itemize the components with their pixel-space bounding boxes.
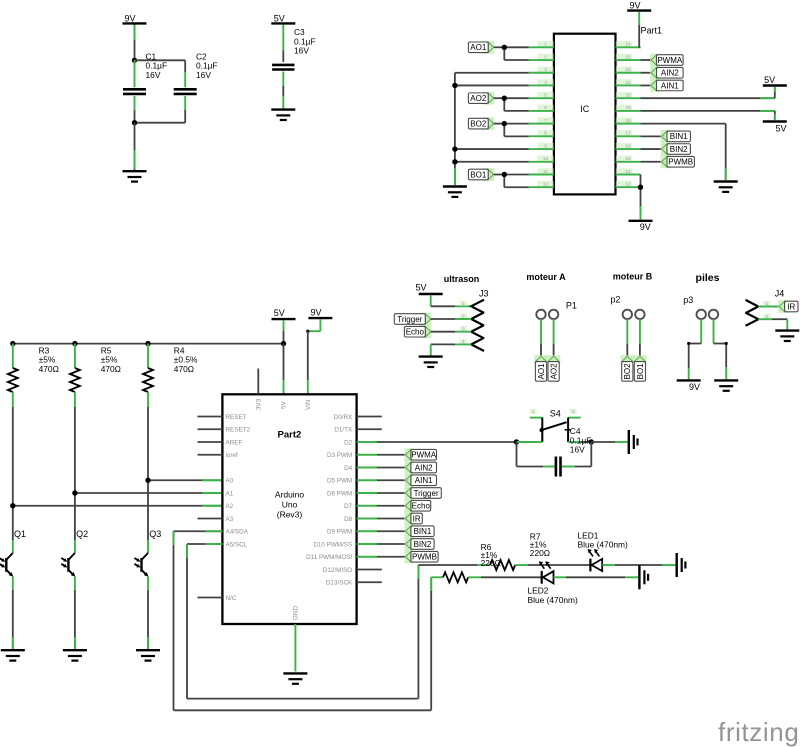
- connector p3 pins: [697, 310, 719, 319]
- svg-text:BIN2: BIN2: [670, 145, 688, 154]
- svg-text:BO1: BO1: [636, 363, 645, 380]
- svg-text:10: 10: [543, 156, 549, 161]
- svg-text:IC: IC: [580, 104, 590, 114]
- wire: [626, 319, 628, 356]
- wire: [639, 319, 641, 356]
- svg-text:9V: 9V: [311, 308, 322, 318]
- wire: [377, 530, 406, 532]
- svg-text:ioref: ioref: [226, 452, 238, 459]
- wire: [135, 59, 186, 61]
- svg-text:11: 11: [543, 169, 548, 174]
- wire: [377, 492, 406, 494]
- wire: [283, 344, 285, 395]
- svg-text:Part2: Part2: [278, 430, 302, 441]
- wire: [517, 441, 592, 443]
- svg-text:D3 PWM: D3 PWM: [327, 452, 352, 459]
- svg-text:IR: IR: [413, 514, 421, 523]
- net label AIN1: [650, 79, 683, 92]
- junction: [502, 121, 507, 126]
- svg-text:2: 2: [766, 314, 769, 319]
- ground: [714, 182, 738, 192]
- ground: [419, 357, 443, 367]
- net label Trigger: [405, 487, 442, 500]
- svg-text:PWMA: PWMA: [657, 56, 683, 65]
- wire: [641, 72, 652, 74]
- net label BIN2: [405, 538, 435, 551]
- net label PWMB: [661, 155, 695, 168]
- svg-text:BIN2: BIN2: [414, 540, 432, 549]
- net label Trigger: [394, 313, 431, 326]
- svg-text:1: 1: [462, 301, 465, 306]
- svg-text:Blue (470nm): Blue (470nm): [528, 595, 578, 605]
- ground: [123, 171, 147, 181]
- svg-text:5V: 5V: [274, 13, 285, 23]
- junction: [452, 83, 457, 88]
- connector p3 title: [683, 272, 719, 305]
- wire: [591, 441, 627, 443]
- svg-text:J4: J4: [775, 289, 785, 299]
- net label Echo: [404, 325, 431, 338]
- svg-text:19: 19: [625, 105, 631, 110]
- svg-text:A1: A1: [226, 490, 234, 497]
- wire: [641, 135, 662, 137]
- svg-text:piles: piles: [696, 272, 720, 284]
- junction: [132, 120, 137, 125]
- svg-text:AO1: AO1: [470, 43, 487, 52]
- wire: [758, 319, 787, 329]
- junction: [72, 341, 77, 346]
- junction: [589, 439, 594, 444]
- wire: [135, 110, 186, 123]
- svg-text:470Ω: 470Ω: [39, 364, 59, 374]
- svg-text:9: 9: [544, 143, 547, 148]
- svg-text:22: 22: [625, 67, 631, 72]
- svg-text:15: 15: [625, 156, 631, 161]
- net label BO2: [468, 117, 494, 130]
- svg-text:Uno: Uno: [282, 500, 298, 510]
- wire: [13, 343, 284, 345]
- svg-text:D5 PWM: D5 PWM: [327, 478, 352, 485]
- svg-text:VIN: VIN: [305, 399, 312, 410]
- svg-text:D1/TX: D1/TX: [334, 427, 353, 434]
- wire: [494, 98, 529, 111]
- wire: [641, 161, 662, 163]
- svg-text:2: 2: [544, 54, 547, 59]
- resistor R3: [8, 344, 59, 407]
- connector J4 title: [775, 289, 785, 299]
- svg-text:5V: 5V: [281, 400, 288, 409]
- svg-text:3: 3: [572, 409, 575, 414]
- svg-text:220Ω: 220Ω: [530, 548, 550, 558]
- svg-text:4: 4: [462, 339, 465, 344]
- wire: [431, 295, 472, 306]
- wire: [640, 175, 642, 220]
- connector J3 title: [444, 274, 489, 298]
- svg-text:5V: 5V: [775, 123, 786, 133]
- wire: [641, 87, 775, 99]
- wire: [293, 606, 300, 672]
- svg-text:BIN1: BIN1: [414, 527, 432, 536]
- svg-text:3: 3: [544, 67, 547, 72]
- capacitor C4: [556, 426, 591, 476]
- svg-text:P1: P1: [566, 301, 577, 311]
- svg-text:(Rev3): (Rev3): [277, 510, 303, 520]
- svg-text:18: 18: [625, 118, 631, 123]
- wire: [641, 124, 726, 180]
- wire: [641, 59, 652, 61]
- svg-text:BO1: BO1: [470, 170, 487, 179]
- connector J3 pins: [460, 300, 484, 351]
- Arduino pin 5V: [281, 400, 288, 409]
- svg-text:1: 1: [532, 409, 535, 414]
- svg-text:GND: GND: [293, 606, 300, 620]
- svg-text:23: 23: [625, 54, 631, 59]
- ground: [714, 380, 738, 390]
- svg-text:A2: A2: [226, 503, 234, 510]
- wire: [377, 505, 406, 507]
- svg-text:A3: A3: [226, 516, 234, 523]
- svg-text:fritzing: fritzing: [718, 717, 799, 747]
- wire: [641, 148, 662, 150]
- wire: [75, 407, 223, 553]
- svg-text:RESET2: RESET2: [226, 427, 251, 434]
- svg-text:D13/SCK: D13/SCK: [326, 580, 353, 587]
- wire: [283, 320, 285, 343]
- junction: [502, 172, 507, 177]
- wire: [306, 319, 320, 394]
- svg-text:AO2: AO2: [470, 94, 487, 103]
- power 5V: [415, 283, 442, 295]
- wire: [377, 479, 406, 481]
- svg-text:Echo: Echo: [406, 328, 425, 337]
- power 9V: [308, 308, 332, 319]
- wire: [455, 73, 529, 185]
- svg-text:1: 1: [766, 301, 769, 306]
- Arduino pin 3V3: [256, 369, 263, 411]
- ground: [639, 565, 648, 589]
- net label BO1: [633, 355, 646, 381]
- svg-text:9V: 9V: [629, 1, 640, 11]
- wire: [714, 319, 728, 379]
- svg-text:D10 PWM/SS: D10 PWM/SS: [313, 541, 352, 548]
- svg-text:A4/SDA: A4/SDA: [226, 529, 249, 536]
- svg-text:12: 12: [543, 182, 549, 187]
- connector P1 pins: [536, 310, 558, 319]
- svg-text:9V: 9V: [689, 382, 700, 392]
- svg-text:9V: 9V: [640, 222, 651, 232]
- svg-text:Part1: Part1: [641, 26, 663, 36]
- junction: [145, 341, 150, 346]
- wire: [641, 84, 652, 86]
- svg-text:5V: 5V: [274, 308, 285, 318]
- IC right pins 24-13: [616, 41, 641, 187]
- wire: [377, 556, 406, 558]
- wire: [494, 175, 529, 188]
- net label IR: [778, 300, 798, 313]
- capacitor C1: [123, 51, 167, 110]
- capacitor C2: [174, 51, 218, 110]
- ground: [775, 331, 799, 341]
- Arduino right pins: [306, 414, 382, 587]
- svg-text:Q2: Q2: [76, 529, 88, 539]
- net label Echo: [405, 499, 431, 512]
- svg-text:5V: 5V: [764, 75, 775, 85]
- net label IR: [405, 512, 423, 525]
- Arduino pin VIN: [305, 399, 312, 410]
- svg-text:A5/SCL: A5/SCL: [226, 541, 248, 548]
- svg-text:3V3: 3V3: [256, 398, 263, 410]
- svg-text:21: 21: [625, 80, 631, 85]
- svg-text:Q3: Q3: [149, 529, 161, 539]
- wire: [431, 331, 472, 333]
- capacitor C3: [272, 25, 315, 109]
- fritzing logo: [718, 717, 799, 747]
- svg-text:D0/RX: D0/RX: [334, 414, 353, 421]
- svg-text:16V: 16V: [196, 70, 211, 80]
- net label BO2: [621, 355, 634, 381]
- svg-text:7: 7: [544, 118, 547, 123]
- net label AO1: [468, 41, 494, 54]
- IC left pins 1-12: [529, 41, 554, 187]
- svg-text:BO2: BO2: [470, 120, 487, 129]
- svg-text:D6 PWM: D6 PWM: [327, 490, 352, 497]
- wire: [562, 442, 592, 467]
- svg-text:Q1: Q1: [14, 529, 26, 539]
- svg-text:5: 5: [544, 92, 547, 97]
- power 9V: [677, 380, 701, 391]
- ground: [283, 673, 307, 683]
- IC Part1 body: [554, 26, 662, 195]
- svg-text:AIN1: AIN1: [415, 476, 433, 485]
- svg-text:220Ω: 220Ω: [481, 558, 501, 568]
- power 5V: [271, 13, 295, 23]
- net label BIN2: [661, 143, 691, 156]
- svg-text:20: 20: [625, 92, 631, 97]
- net label BIN1: [661, 130, 691, 143]
- wire: [13, 407, 223, 553]
- wire: [553, 319, 555, 356]
- wire: [377, 543, 406, 545]
- net label BO1: [468, 168, 494, 181]
- power 5V: [272, 308, 296, 319]
- svg-text:AO2: AO2: [550, 363, 559, 380]
- junction: [502, 45, 507, 50]
- junction: [10, 503, 15, 508]
- svg-text:D7: D7: [344, 503, 353, 510]
- ground: [443, 187, 467, 197]
- svg-text:6: 6: [544, 105, 547, 110]
- transistor Q1: [0, 529, 26, 649]
- svg-text:16V: 16V: [146, 70, 161, 80]
- ground: [677, 553, 686, 577]
- net label AIN2: [405, 461, 437, 474]
- svg-text:470Ω: 470Ω: [101, 364, 121, 374]
- wire: [431, 344, 472, 355]
- power 5V: [763, 75, 787, 86]
- Arduino left pins: [198, 414, 251, 602]
- svg-text:470Ω: 470Ω: [174, 364, 194, 374]
- junction: [638, 185, 643, 190]
- svg-text:moteur B: moteur B: [613, 272, 653, 282]
- wire: [377, 518, 406, 520]
- svg-text:D9 PWM: D9 PWM: [327, 529, 352, 536]
- net label AO2: [468, 92, 494, 105]
- svg-text:14: 14: [625, 169, 631, 174]
- connector p2 title: [610, 272, 652, 305]
- wire: [134, 110, 136, 123]
- svg-text:BIN1: BIN1: [670, 132, 688, 141]
- wire: [134, 25, 136, 61]
- svg-text:D4: D4: [344, 465, 353, 472]
- svg-text:8: 8: [544, 131, 547, 136]
- LED LED1: [578, 531, 628, 572]
- svg-text:Trigger: Trigger: [397, 315, 422, 324]
- svg-text:4: 4: [544, 80, 547, 85]
- svg-text:Arduino: Arduino: [275, 490, 305, 500]
- LED LED2: [528, 561, 578, 605]
- power 9V: [627, 1, 651, 11]
- svg-text:p2: p2: [610, 294, 620, 304]
- svg-text:AIN2: AIN2: [415, 463, 433, 472]
- svg-text:BO2: BO2: [623, 363, 632, 380]
- svg-text:D2: D2: [344, 439, 353, 446]
- svg-text:D8: D8: [344, 516, 353, 523]
- junction: [502, 95, 507, 100]
- svg-text:PWMB: PWMB: [412, 553, 437, 562]
- junction: [145, 478, 150, 483]
- wire: [494, 124, 529, 137]
- wire: [468, 576, 541, 578]
- svg-text:Blue (470nm): Blue (470nm): [578, 540, 628, 550]
- wire: [187, 544, 418, 699]
- resistor R6: [443, 542, 501, 582]
- svg-text:AO1: AO1: [537, 363, 546, 380]
- svg-text:3: 3: [462, 326, 465, 331]
- svg-text:24: 24: [625, 42, 631, 47]
- svg-text:2: 2: [462, 314, 465, 319]
- wire: [377, 467, 406, 469]
- net label AO1: [534, 355, 547, 381]
- svg-text:16: 16: [625, 143, 631, 148]
- wire: [377, 454, 406, 456]
- svg-text:Echo: Echo: [412, 502, 431, 511]
- net label PWMB: [405, 550, 439, 563]
- svg-text:D12/MISO: D12/MISO: [323, 567, 352, 574]
- junction: [452, 159, 457, 164]
- svg-text:N/C: N/C: [226, 595, 237, 602]
- junction: [10, 341, 15, 346]
- wire: [418, 564, 490, 566]
- svg-text:J3: J3: [479, 288, 489, 298]
- resistor R7: [490, 532, 550, 571]
- wire: [431, 576, 443, 578]
- switch S4: [530, 409, 581, 443]
- connector P1 title: [526, 272, 577, 311]
- wire: [134, 123, 136, 170]
- svg-text:5V: 5V: [415, 283, 426, 293]
- svg-text:AIN2: AIN2: [661, 69, 679, 78]
- wire: [515, 564, 590, 566]
- wire: [148, 407, 222, 553]
- resistor R4: [143, 344, 198, 407]
- ground: [136, 650, 160, 660]
- svg-text:1: 1: [544, 42, 547, 47]
- resistor R5: [70, 344, 121, 407]
- net label BIN1: [405, 525, 435, 538]
- svg-text:AIN1: AIN1: [661, 81, 679, 90]
- junction: [452, 146, 457, 151]
- svg-text:A0: A0: [226, 478, 234, 485]
- ground: [629, 430, 638, 454]
- svg-text:PWMA: PWMA: [411, 451, 437, 460]
- transistor Q2: [61, 529, 88, 649]
- transistor Q3: [134, 529, 161, 649]
- wire: [639, 12, 640, 48]
- net label AIN1: [405, 474, 437, 487]
- wire: [554, 576, 639, 578]
- ground: [1, 650, 25, 660]
- connector p2 pins: [623, 310, 645, 319]
- svg-text:13: 13: [625, 182, 631, 187]
- wire: [758, 306, 779, 308]
- svg-text:16V: 16V: [294, 46, 309, 56]
- svg-text:16V: 16V: [570, 445, 585, 455]
- wire: [602, 564, 675, 566]
- svg-text:D11 PWM/MOSI: D11 PWM/MOSI: [306, 554, 352, 561]
- svg-text:p3: p3: [683, 295, 693, 305]
- ground: [63, 650, 87, 660]
- svg-text:RESET: RESET: [226, 414, 247, 421]
- junction: [72, 490, 77, 495]
- svg-text:Trigger: Trigger: [414, 489, 439, 498]
- junction: [514, 439, 519, 444]
- svg-text:S4: S4: [550, 409, 561, 419]
- svg-text:IR: IR: [787, 302, 795, 311]
- svg-text:9V: 9V: [125, 13, 136, 23]
- svg-text:PWMB: PWMB: [668, 158, 693, 167]
- wire: [687, 319, 701, 379]
- power 5V: [763, 122, 787, 134]
- net label PWMA: [650, 54, 683, 67]
- wire: [377, 441, 517, 443]
- power 9V: [123, 13, 147, 23]
- power 9V: [629, 221, 653, 232]
- net label AIN2: [650, 66, 683, 79]
- wire: [431, 318, 472, 320]
- wire: [494, 47, 529, 60]
- Arduino Part2 body: [222, 394, 356, 624]
- svg-text:moteur A: moteur A: [526, 272, 566, 282]
- svg-text:AREF: AREF: [226, 439, 243, 446]
- junction: [281, 341, 286, 346]
- wire: [174, 531, 432, 710]
- svg-text:ultrason: ultrason: [444, 274, 480, 284]
- net label PWMA: [405, 448, 437, 461]
- svg-text:17: 17: [625, 131, 631, 136]
- wire: [641, 111, 775, 121]
- junction: [132, 58, 137, 63]
- wire: [517, 442, 555, 467]
- ground: [271, 110, 295, 120]
- connector J4 pins: [746, 300, 771, 326]
- wire: [540, 319, 542, 356]
- net label AO2: [547, 355, 560, 381]
